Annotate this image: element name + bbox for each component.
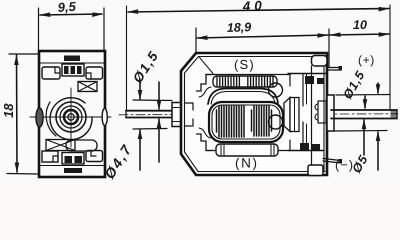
cap inner wall line [323,57,325,171]
can to cap seam [311,66,313,171]
dimension 18,9 [196,20,329,67]
left shaft [126,110,181,112]
left view bottom row center dark [62,153,84,165]
dimension phi 1,5 right [340,68,367,155]
dimension 10 [329,18,390,37]
right shaft [331,109,397,111]
bottom magnet line [206,150,290,152]
left view body outline [39,51,105,177]
left view side ear left [36,108,43,127]
left view brush holder center [62,64,84,76]
left view side ear right [102,109,107,126]
left view center circles [68,114,74,120]
left view bottom tab bar [64,168,82,173]
dimension phi 4,7 [101,79,142,182]
svg-text:10: 10 [353,18,367,32]
left view inner top line [40,62,104,64]
brush plate [288,73,326,75]
winding end lobe bottom [269,115,283,129]
motor body outline [181,53,327,175]
can fold line top [200,58,214,74]
svg-text:(S): (S) [234,57,255,72]
armature bottom bar [216,144,278,156]
svg-text:(−): (−) [335,158,354,172]
dimension 9,5 [39,0,105,50]
left view lower brush card oval [66,140,97,151]
centerline [119,114,398,115]
capsule winding hatch right [252,106,272,137]
right bearing boss [327,95,334,131]
magnet step left top [197,75,213,92]
left view top tab bar [64,56,80,62]
svg-text:18: 18 [1,103,16,118]
brush details bottom [300,143,309,150]
bearing bumps on cap [318,101,326,123]
body inner wall [185,57,326,172]
armature top winding bar (hatched) [213,76,277,87]
dimension 18 (vertical, left) [1,54,39,174]
left bearing boss [172,103,182,127]
left view brush holder left [42,67,60,79]
svg-text:18,9: 18,9 [227,20,252,35]
svg-text:40: 40 [241,0,266,14]
top magnet line [206,74,290,76]
left view crosshair [30,116,111,118]
dimension phi 1,5 left [130,48,162,162]
commutator cone [284,98,290,132]
svg-text:(N): (N) [235,156,259,171]
capsule winding hatch left [217,106,245,138]
left view bottom row right rect [86,151,103,162]
end cap bottom clip tab [308,165,323,176]
svg-text:(+): (+) [358,53,375,67]
left view terminal x-box bottom [46,140,75,151]
left view bottom row left rect [42,151,58,162]
armature core capsule [209,102,283,142]
left view terminal x-box top [78,82,97,92]
winding end lobe top [269,83,283,97]
terminal plus [327,68,341,71]
dimension phi 5 [349,83,380,176]
svg-text:9,5: 9,5 [57,0,77,15]
end cap top clip tab [312,56,328,67]
magnet step left bottom [197,134,213,151]
dimension 40 (top) [127,0,391,110]
left view inner bottom line [40,165,104,167]
armature top arch [208,89,278,105]
terminal minus [323,159,341,164]
left bearing pocket [185,103,194,126]
left view brush holder right [86,67,103,79]
brush details top [305,76,314,84]
